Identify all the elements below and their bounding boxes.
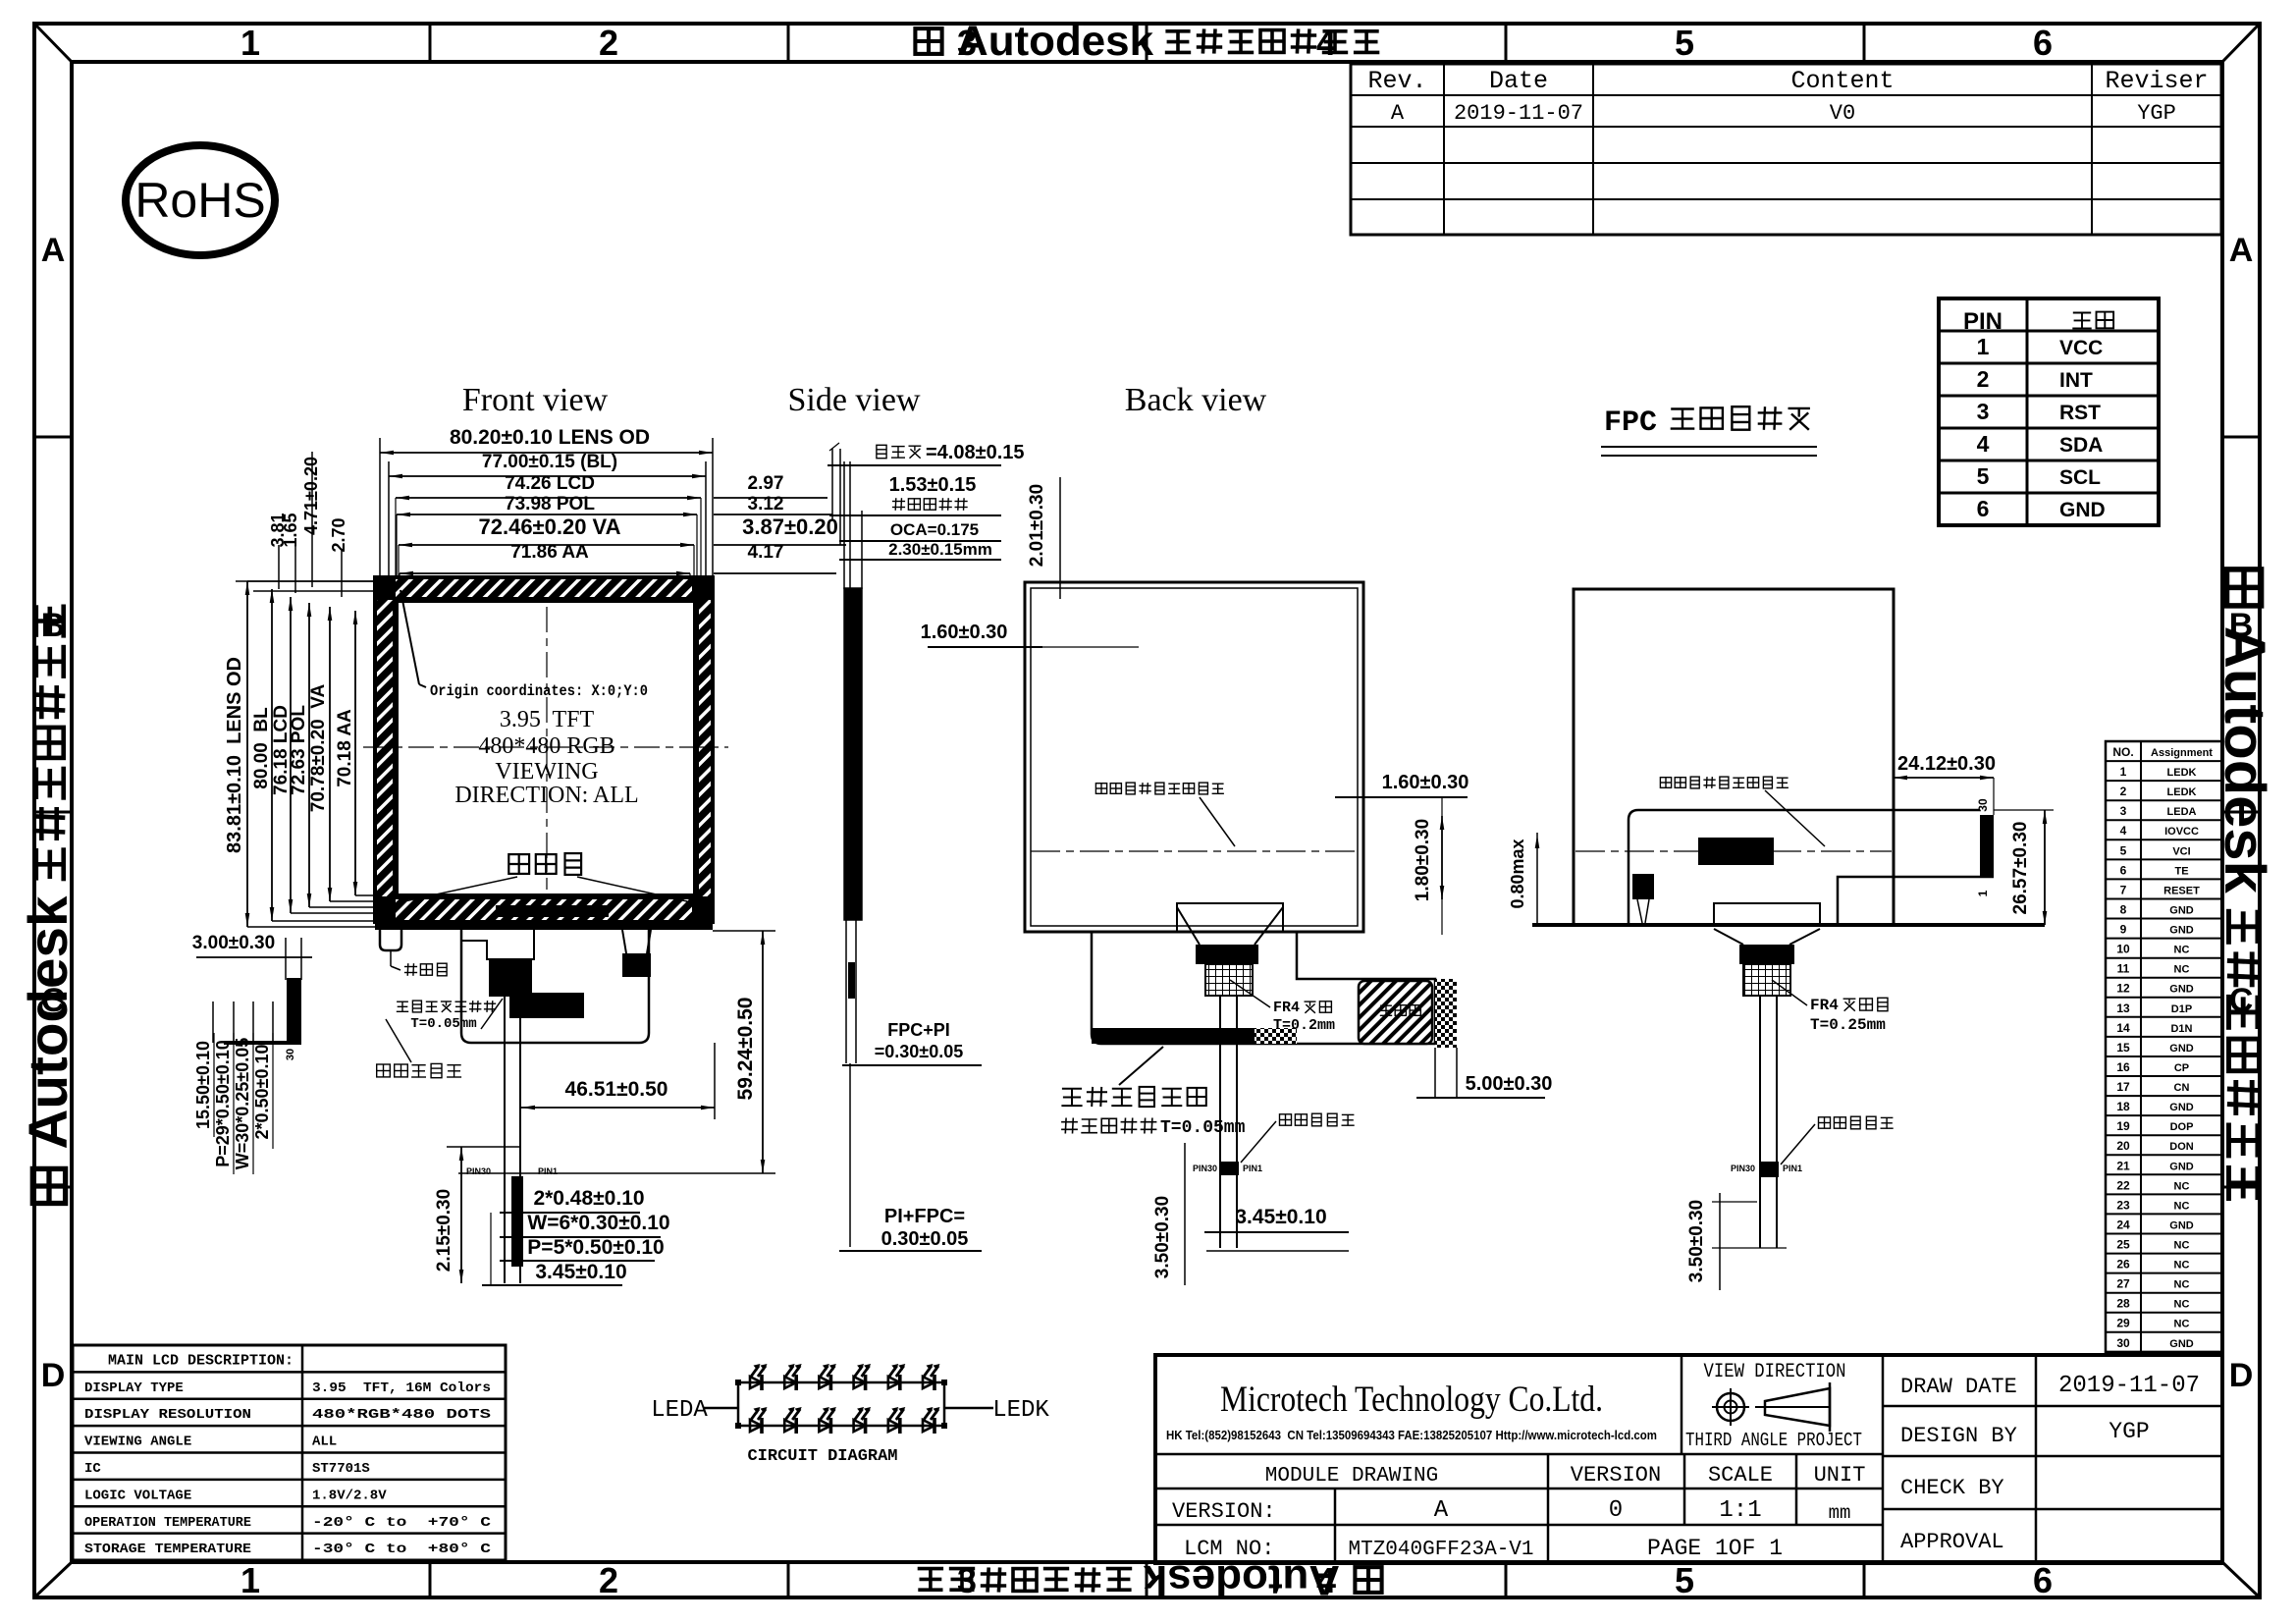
- svg-text:0.30±0.05: 0.30±0.05: [881, 1228, 969, 1250]
- svg-text:3.87±0.20: 3.87±0.20: [742, 514, 838, 539]
- title block frame: [1155, 1355, 2222, 1563]
- side view dim 1.53: [829, 474, 1001, 515]
- svg-text:D: D: [41, 1357, 66, 1394]
- svg-text:-30° C to +80° C: -30° C to +80° C: [312, 1542, 492, 1557]
- svg-text:CIRCUIT DIAGRAM: CIRCUIT DIAGRAM: [747, 1447, 897, 1466]
- svg-text:STORAGE TEMPERATURE: STORAGE TEMPERATURE: [84, 1542, 251, 1557]
- svg-text:GND: GND: [2169, 1102, 2194, 1113]
- svg-text:5.00±0.30: 5.00±0.30: [1466, 1073, 1553, 1095]
- svg-text:3.95 TFT, 16M Colors: 3.95 TFT, 16M Colors: [312, 1380, 491, 1396]
- svg-text:GND: GND: [2169, 1043, 2194, 1055]
- svg-text:LEDK: LEDK: [2167, 767, 2197, 779]
- svg-text:1: 1: [1976, 890, 1990, 896]
- back view dim 3.45: [1204, 1206, 1349, 1251]
- back view gold finger pad: [1359, 981, 1432, 1044]
- svg-text:2: 2: [599, 23, 618, 63]
- svg-text:Rev.: Rev.: [1367, 67, 1426, 95]
- svg-text:2: 2: [2120, 785, 2127, 798]
- svg-text:T=0.2mm: T=0.2mm: [1273, 1017, 1335, 1034]
- svg-text:APPROVAL: APPROVAL: [1900, 1530, 2004, 1554]
- svg-text:3.95 TFT: 3.95 TFT: [500, 707, 595, 732]
- svg-text:5: 5: [1977, 463, 1990, 489]
- svg-text:NC: NC: [2174, 945, 2190, 956]
- svg-text:2*0.50±0.10: 2*0.50±0.10: [252, 1045, 272, 1140]
- svg-text:PIN30: PIN30: [466, 1166, 491, 1176]
- svg-text:14: 14: [2116, 1021, 2130, 1035]
- zone numbers bottom: [240, 1560, 2053, 1600]
- front view left small dims 3.81 1.65 4.71 2.70: [236, 452, 393, 597]
- svg-text:IC: IC: [84, 1461, 101, 1477]
- svg-text:YGP: YGP: [2109, 1419, 2149, 1444]
- svg-text:3.45±0.10: 3.45±0.10: [535, 1261, 626, 1283]
- svg-text:3.00±0.30: 3.00±0.30: [192, 933, 275, 953]
- svg-text:MODULE DRAWING: MODULE DRAWING: [1265, 1465, 1438, 1488]
- svg-text:=0.30±0.05: =0.30±0.05: [875, 1042, 963, 1061]
- svg-text:0: 0: [1609, 1497, 1623, 1524]
- bend view dim 3.50: [1686, 1193, 1787, 1290]
- third angle projection symbol: [1712, 1382, 1830, 1432]
- svg-text:12: 12: [2116, 982, 2130, 996]
- svg-text:73.98 POL: 73.98 POL: [505, 494, 595, 514]
- back view label white mark line: [1241, 1113, 1355, 1163]
- svg-text:PIN1: PIN1: [1783, 1164, 1802, 1173]
- pin table I2C: [1939, 298, 2159, 525]
- svg-text:26.57±0.30: 26.57±0.30: [2010, 822, 2031, 915]
- svg-text:A: A: [41, 232, 66, 269]
- front view dim 59.24: [458, 931, 775, 1173]
- svg-text:CN: CN: [2174, 1082, 2190, 1094]
- svg-text:3: 3: [1977, 399, 1990, 424]
- front view label dot silver paste: [404, 853, 687, 901]
- node LEDK: [992, 1397, 1049, 1424]
- svg-text:NC: NC: [2174, 1240, 2190, 1252]
- svg-text:13: 13: [2116, 1001, 2130, 1015]
- front view top dim extension lines: [396, 498, 701, 600]
- LED D1: [750, 1364, 768, 1390]
- bend view FPC tail: [1731, 996, 1802, 1248]
- svg-text:28: 28: [2116, 1297, 2130, 1311]
- svg-text:UNIT: UNIT: [1814, 1463, 1866, 1488]
- svg-text:Reviser: Reviser: [2105, 67, 2208, 95]
- back view dim 1.80 right: [1413, 797, 1444, 935]
- svg-text:1: 1: [2120, 765, 2127, 779]
- LED D6: [923, 1364, 940, 1390]
- svg-text:2*0.48±0.10: 2*0.48±0.10: [533, 1187, 644, 1210]
- watermark banner left (rotated): [18, 605, 79, 1204]
- svg-text:LEDA: LEDA: [2167, 806, 2197, 818]
- svg-text:OCA=0.175: OCA=0.175: [890, 520, 979, 539]
- svg-text:2.30±0.15mm: 2.30±0.15mm: [888, 540, 992, 559]
- title block module drawing row: [1265, 1463, 1866, 1488]
- svg-text:3.12: 3.12: [748, 494, 784, 514]
- side view thickness dim 4.08: [828, 442, 1025, 465]
- bend view outline: [1574, 589, 1894, 925]
- svg-text:Origin coordinates: X:0;Y:0: Origin coordinates: X:0;Y:0: [430, 682, 648, 700]
- svg-text:PI+FPC=: PI+FPC=: [884, 1206, 965, 1227]
- wire bus to LEDK: [944, 1407, 993, 1410]
- svg-text:GND: GND: [2169, 925, 2194, 937]
- svg-text:2019-11-07: 2019-11-07: [1454, 101, 1583, 126]
- svg-text:2.70: 2.70: [329, 517, 348, 552]
- svg-text:T=0.25mm: T=0.25mm: [1810, 1016, 1886, 1034]
- svg-text:3.50±0.30: 3.50±0.30: [1686, 1200, 1707, 1282]
- svg-text:VERSION:: VERSION:: [1172, 1499, 1276, 1524]
- side view dim OCA: [839, 520, 1001, 541]
- front view right offset dims 2.97 3.12 3.87 4.17: [714, 473, 846, 573]
- svg-text:VIEWING ANGLE: VIEWING ANGLE: [84, 1435, 191, 1450]
- LED D7: [750, 1407, 768, 1434]
- title block design by: [1900, 1419, 2150, 1448]
- label circuit diagram: [747, 1447, 897, 1466]
- svg-text:VIEW DIRECTION: VIEW DIRECTION: [1704, 1361, 1846, 1383]
- svg-text:NC: NC: [2174, 1180, 2190, 1192]
- back view label copper ground tape: [1061, 1047, 1246, 1138]
- front view top dimension 74.26 LCD: [396, 473, 701, 500]
- svg-text:T=0.05mm: T=0.05mm: [410, 1016, 476, 1032]
- svg-text:FR4: FR4: [1810, 997, 1839, 1014]
- watermark banner top: [915, 18, 1379, 65]
- svg-text:74.26 LCD: 74.26 LCD: [505, 473, 595, 494]
- svg-text:4.17: 4.17: [748, 542, 784, 563]
- svg-text:DRAW DATE: DRAW DATE: [1900, 1375, 2017, 1399]
- bend view label white mark line: [1781, 1116, 1894, 1164]
- bend view label FR4: [1772, 980, 1888, 1034]
- svg-text:3.50±0.30: 3.50±0.30: [1152, 1196, 1173, 1278]
- svg-text:15.50±0.10: 15.50±0.10: [193, 1041, 213, 1129]
- svg-text:CHECK BY: CHECK BY: [1900, 1476, 2004, 1500]
- svg-text:LEDA: LEDA: [651, 1397, 708, 1424]
- side view dim FPC+PI: [842, 1020, 982, 1065]
- title block draw date: [1900, 1373, 2200, 1399]
- front view origin leader and text: [400, 590, 648, 700]
- front view top dimension 77.00 BL: [389, 452, 706, 581]
- svg-text:1.60±0.30: 1.60±0.30: [1382, 772, 1469, 793]
- svg-text:Autodesk: Autodesk: [18, 895, 79, 1149]
- title block lcm no row: [1184, 1536, 1783, 1561]
- svg-text:71.86 AA: 71.86 AA: [510, 542, 589, 563]
- svg-text:SCALE: SCALE: [1708, 1463, 1773, 1488]
- svg-text:30: 30: [285, 1049, 296, 1060]
- bend view dim 26.57: [1994, 810, 2054, 925]
- svg-text:27: 27: [2116, 1277, 2130, 1291]
- LED D9: [819, 1407, 836, 1434]
- svg-text:Assignment: Assignment: [2151, 747, 2213, 759]
- svg-text:4: 4: [2120, 824, 2127, 838]
- side view dim 2.30: [839, 540, 1001, 560]
- zone letters right: [2229, 232, 2254, 1394]
- svg-text:46.51±0.50: 46.51±0.50: [565, 1078, 668, 1101]
- svg-text:8: 8: [2120, 903, 2127, 917]
- svg-text:NC: NC: [2174, 964, 2190, 976]
- svg-text:MAIN LCD DESCRIPTION:: MAIN LCD DESCRIPTION:: [108, 1353, 294, 1370]
- svg-text:W=6*0.30±0.10: W=6*0.30±0.10: [527, 1212, 669, 1234]
- front view dim 46.51: [521, 1043, 715, 1119]
- svg-text:YGP: YGP: [2137, 101, 2176, 126]
- LED D5: [888, 1364, 906, 1390]
- svg-text:1: 1: [240, 1560, 260, 1600]
- LED D12: [923, 1407, 940, 1434]
- bend view small pad: [1632, 874, 1654, 923]
- svg-text:24.12±0.30: 24.12±0.30: [1897, 753, 1996, 775]
- svg-text:NC: NC: [2174, 1200, 2190, 1212]
- front view top dimension 73.98 POL: [397, 494, 697, 516]
- front view label tear position: [391, 950, 447, 976]
- svg-text:-20° C to +70° C: -20° C to +70° C: [312, 1515, 492, 1531]
- RoHS logo: [126, 145, 275, 255]
- front view FPC pad 2: [509, 993, 584, 1018]
- svg-text:19: 19: [2116, 1119, 2130, 1133]
- svg-text:NC: NC: [2174, 1279, 2190, 1291]
- svg-text:17: 17: [2116, 1080, 2130, 1094]
- svg-text:29: 29: [2116, 1317, 2130, 1330]
- svg-text:TE: TE: [2174, 865, 2188, 877]
- svg-text:SCL: SCL: [2059, 466, 2101, 489]
- svg-text:P=5*0.50±0.10: P=5*0.50±0.10: [527, 1236, 664, 1259]
- svg-text:1.65: 1.65: [281, 513, 300, 547]
- bend view dim 0.80max: [1508, 833, 1539, 925]
- front view top dimension 72.46 VA: [399, 514, 694, 547]
- bend view folded FPC outline: [1629, 810, 1994, 925]
- svg-text:LEDK: LEDK: [992, 1397, 1049, 1424]
- svg-text:72.63 POL: 72.63 POL: [289, 705, 309, 795]
- svg-text:W=30*0.25±0.05: W=30*0.25±0.05: [233, 1038, 252, 1169]
- label FPC bend effect title: [1601, 406, 1817, 456]
- svg-text:LEDK: LEDK: [2167, 786, 2197, 798]
- svg-text:=4.08±0.15: =4.08±0.15: [926, 442, 1025, 463]
- back view dim 2.01 top: [1027, 477, 1060, 599]
- svg-text:RST: RST: [2059, 402, 2101, 424]
- side view dim PI+FPC: [839, 1206, 982, 1251]
- svg-text:V0: V0: [1830, 101, 1855, 126]
- svg-text:SDA: SDA: [2059, 434, 2103, 457]
- svg-text:1.8V/2.8V: 1.8V/2.8V: [312, 1488, 387, 1503]
- svg-text:30: 30: [2116, 1336, 2130, 1350]
- svg-text:GND: GND: [2169, 984, 2194, 996]
- back view center dash line: [1031, 850, 1358, 852]
- svg-text:DESIGN BY: DESIGN BY: [1900, 1424, 2017, 1448]
- svg-text:480*480 RGB: 480*480 RGB: [478, 733, 614, 759]
- back view label FR4: [1230, 980, 1335, 1034]
- svg-text:20: 20: [2116, 1139, 2130, 1153]
- svg-text:GND: GND: [2059, 499, 2106, 521]
- svg-text:2.15±0.30: 2.15±0.30: [434, 1189, 454, 1272]
- front view left pin stack: [213, 978, 301, 1060]
- svg-text:NO.: NO.: [2112, 745, 2133, 759]
- wire LED row: [738, 1425, 944, 1428]
- svg-text:FR4: FR4: [1273, 1000, 1300, 1016]
- back view FPC tail: [1193, 996, 1262, 1248]
- front view tear tab: [380, 930, 401, 950]
- svg-text:VERSION: VERSION: [1571, 1463, 1661, 1488]
- back view outline: [1025, 582, 1363, 932]
- back view dim 1.60 right: [1335, 772, 1468, 797]
- svg-text:A: A: [1434, 1497, 1449, 1524]
- svg-text:A: A: [2229, 232, 2254, 269]
- title block company name: [1166, 1380, 1657, 1442]
- front view FPC pad 1: [489, 959, 532, 997]
- svg-text:0.80max: 0.80max: [1508, 839, 1527, 908]
- svg-text:25: 25: [2116, 1238, 2130, 1252]
- svg-text:IOVCC: IOVCC: [2164, 826, 2199, 838]
- bend view bottom connector: [1714, 903, 1820, 996]
- svg-text:DISPLAY RESOLUTION: DISPLAY RESOLUTION: [84, 1407, 251, 1423]
- side view profile: [829, 443, 862, 1247]
- front view left main dims LENS OD BL LCD POL VA AA: [224, 581, 402, 927]
- svg-text:59.24±0.50: 59.24±0.50: [734, 998, 757, 1101]
- revision table: [1351, 64, 2221, 235]
- svg-text:2019-11-07: 2019-11-07: [2058, 1373, 2200, 1399]
- svg-text:DON: DON: [2169, 1141, 2194, 1153]
- back view dim 1.60 left: [921, 622, 1139, 647]
- svg-text:NC: NC: [2174, 1260, 2190, 1272]
- svg-text:P=29*0.50±0.10: P=29*0.50±0.10: [213, 1040, 233, 1167]
- zone letters left: [41, 232, 66, 1394]
- svg-text:PAGE 1OF 1: PAGE 1OF 1: [1647, 1536, 1783, 1561]
- svg-text:21: 21: [2116, 1159, 2130, 1172]
- title block version row: [1172, 1497, 1850, 1524]
- svg-text:GND: GND: [2169, 1219, 2194, 1231]
- svg-text:OPERATION TEMPERATURE: OPERATION TEMPERATURE: [84, 1515, 251, 1531]
- front view right black pad: [622, 930, 651, 977]
- front view display text block: [454, 707, 638, 808]
- bend view connector end: [1976, 798, 1994, 896]
- svg-text:THIRD ANGLE PROJECT: THIRD ANGLE PROJECT: [1685, 1430, 1862, 1451]
- zone numbers 3 4 behind banner: [957, 23, 1336, 1600]
- svg-text:ST7701S: ST7701S: [312, 1461, 370, 1477]
- svg-text:A: A: [1391, 101, 1405, 126]
- svg-text:11: 11: [2117, 962, 2130, 976]
- front view label high temp tape: [397, 999, 503, 1032]
- LED bus right: [941, 1380, 947, 1429]
- svg-text:77.00±0.15 (BL): 77.00±0.15 (BL): [482, 452, 617, 472]
- svg-text:PIN1: PIN1: [1243, 1164, 1262, 1173]
- front view dim 3.00: [192, 933, 312, 980]
- bend view center dash line: [1575, 850, 1892, 852]
- svg-text:LOGIC VOLTAGE: LOGIC VOLTAGE: [84, 1488, 191, 1503]
- front view FPC flap outline: [461, 930, 649, 1043]
- watermark banner bottom (rotated): [918, 1556, 1382, 1603]
- svg-text:3: 3: [2120, 804, 2127, 818]
- svg-text:80.20±0.10 LENS OD: 80.20±0.10 LENS OD: [450, 426, 650, 449]
- svg-text:D: D: [2229, 1357, 2254, 1394]
- front view FPC tail: [466, 997, 558, 1283]
- svg-text:3.45±0.10: 3.45±0.10: [1235, 1206, 1326, 1228]
- title block approval: [1900, 1530, 2004, 1554]
- svg-text:1.60±0.30: 1.60±0.30: [921, 622, 1008, 643]
- svg-text:83.81±0.10 LENS OD: 83.81±0.10 LENS OD: [224, 657, 245, 853]
- svg-text:GND: GND: [2169, 1338, 2194, 1350]
- svg-text:Back view: Back view: [1125, 382, 1267, 418]
- svg-text:70.78±0.20 VA: 70.78±0.20 VA: [308, 683, 329, 812]
- svg-text:10: 10: [2116, 943, 2130, 956]
- back view dim 5.00: [1416, 1073, 1552, 1098]
- svg-text:LCM NO:: LCM NO:: [1184, 1537, 1274, 1561]
- back view FPC flap: [1092, 932, 1435, 1044]
- svg-text:PIN: PIN: [1963, 308, 2002, 335]
- svg-text:FPC+PI: FPC+PI: [887, 1020, 950, 1040]
- svg-text:5: 5: [2120, 843, 2127, 857]
- bend view dim 24.12: [1894, 753, 1996, 815]
- svg-text:6: 6: [2120, 863, 2127, 877]
- svg-text:24: 24: [2116, 1218, 2130, 1231]
- svg-text:1.53±0.15: 1.53±0.15: [889, 474, 977, 496]
- svg-text:16: 16: [2116, 1060, 2130, 1074]
- svg-text:23: 23: [2116, 1198, 2130, 1212]
- svg-text:6: 6: [2033, 1560, 2053, 1600]
- svg-text:Side view: Side view: [787, 382, 920, 418]
- svg-text:Content: Content: [1790, 67, 1894, 95]
- svg-text:4.71±0.20: 4.71±0.20: [301, 457, 321, 535]
- bend view IC pad: [1698, 838, 1774, 865]
- front view left pin stack dims: [193, 1033, 273, 1174]
- svg-text:80.00 BL: 80.00 BL: [251, 707, 272, 789]
- svg-text:VCI: VCI: [2172, 845, 2190, 857]
- LED bus left: [735, 1380, 741, 1429]
- svg-text:5: 5: [1675, 1560, 1694, 1600]
- svg-text:DISPLAY TYPE: DISPLAY TYPE: [84, 1380, 184, 1396]
- back view alignment line label: [1095, 783, 1235, 846]
- svg-text:HK Tel:(852)98152643 CN Tel:1: HK Tel:(852)98152643 CN Tel:13509694343 …: [1166, 1428, 1657, 1442]
- svg-text:DOP: DOP: [2170, 1121, 2194, 1133]
- LED D8: [784, 1407, 802, 1434]
- svg-text:Autodesk: Autodesk: [957, 18, 1153, 65]
- svg-text:mm: mm: [1829, 1502, 1851, 1524]
- svg-text:DIRECTION: ALL: DIRECTION: ALL: [454, 783, 638, 808]
- svg-text:2: 2: [1977, 366, 1990, 392]
- svg-text:1.80±0.30: 1.80±0.30: [1413, 819, 1433, 901]
- svg-text:PIN1: PIN1: [538, 1166, 558, 1176]
- svg-text:2.97: 2.97: [748, 473, 784, 494]
- svg-text:Date: Date: [1489, 67, 1548, 95]
- back view bottom connector: [1150, 903, 1309, 996]
- bend view label alignment line: [1660, 777, 1825, 846]
- front view center marks: [363, 607, 728, 890]
- svg-text:9: 9: [2120, 923, 2127, 937]
- LED D11: [888, 1407, 906, 1434]
- watermark banner right (rotated): [2213, 569, 2276, 1201]
- svg-text:VCC: VCC: [2059, 337, 2103, 359]
- svg-text:RoHS: RoHS: [134, 173, 265, 228]
- wire LED row: [738, 1381, 944, 1384]
- svg-text:1: 1: [240, 23, 260, 63]
- LED D10: [854, 1407, 872, 1434]
- svg-text:VIEWING: VIEWING: [495, 759, 598, 785]
- wire LEDA to bus: [703, 1407, 738, 1410]
- svg-text:7: 7: [2120, 883, 2127, 896]
- svg-text:1:1: 1:1: [1719, 1497, 1761, 1524]
- svg-text:D1N: D1N: [2170, 1023, 2192, 1035]
- back view right connector: [1435, 979, 1457, 1098]
- front view label white marking line: [377, 1019, 461, 1078]
- front view top dimension 80.20 LENS OD: [380, 426, 713, 581]
- svg-text:D1P: D1P: [2171, 1003, 2192, 1015]
- svg-text:2: 2: [599, 1560, 618, 1600]
- bend view bottom baseline: [1532, 923, 2045, 927]
- svg-text:480*RGB*480 DOTS: 480*RGB*480 DOTS: [312, 1407, 491, 1423]
- LED D3: [819, 1364, 836, 1390]
- svg-text:GND: GND: [2169, 1161, 2194, 1172]
- svg-text:NC: NC: [2174, 1319, 2190, 1330]
- front view module outline with hatched frame: [375, 577, 713, 930]
- svg-text:NC: NC: [2174, 1299, 2190, 1311]
- svg-text:INT: INT: [2059, 369, 2093, 392]
- svg-text:26: 26: [2116, 1258, 2130, 1272]
- svg-text:6: 6: [1977, 496, 1990, 521]
- svg-text:GND: GND: [2169, 905, 2194, 917]
- node LEDA: [651, 1397, 708, 1424]
- svg-text:MTZ040GFF23A-V1: MTZ040GFF23A-V1: [1348, 1539, 1533, 1561]
- svg-text:Front view: Front view: [462, 382, 609, 418]
